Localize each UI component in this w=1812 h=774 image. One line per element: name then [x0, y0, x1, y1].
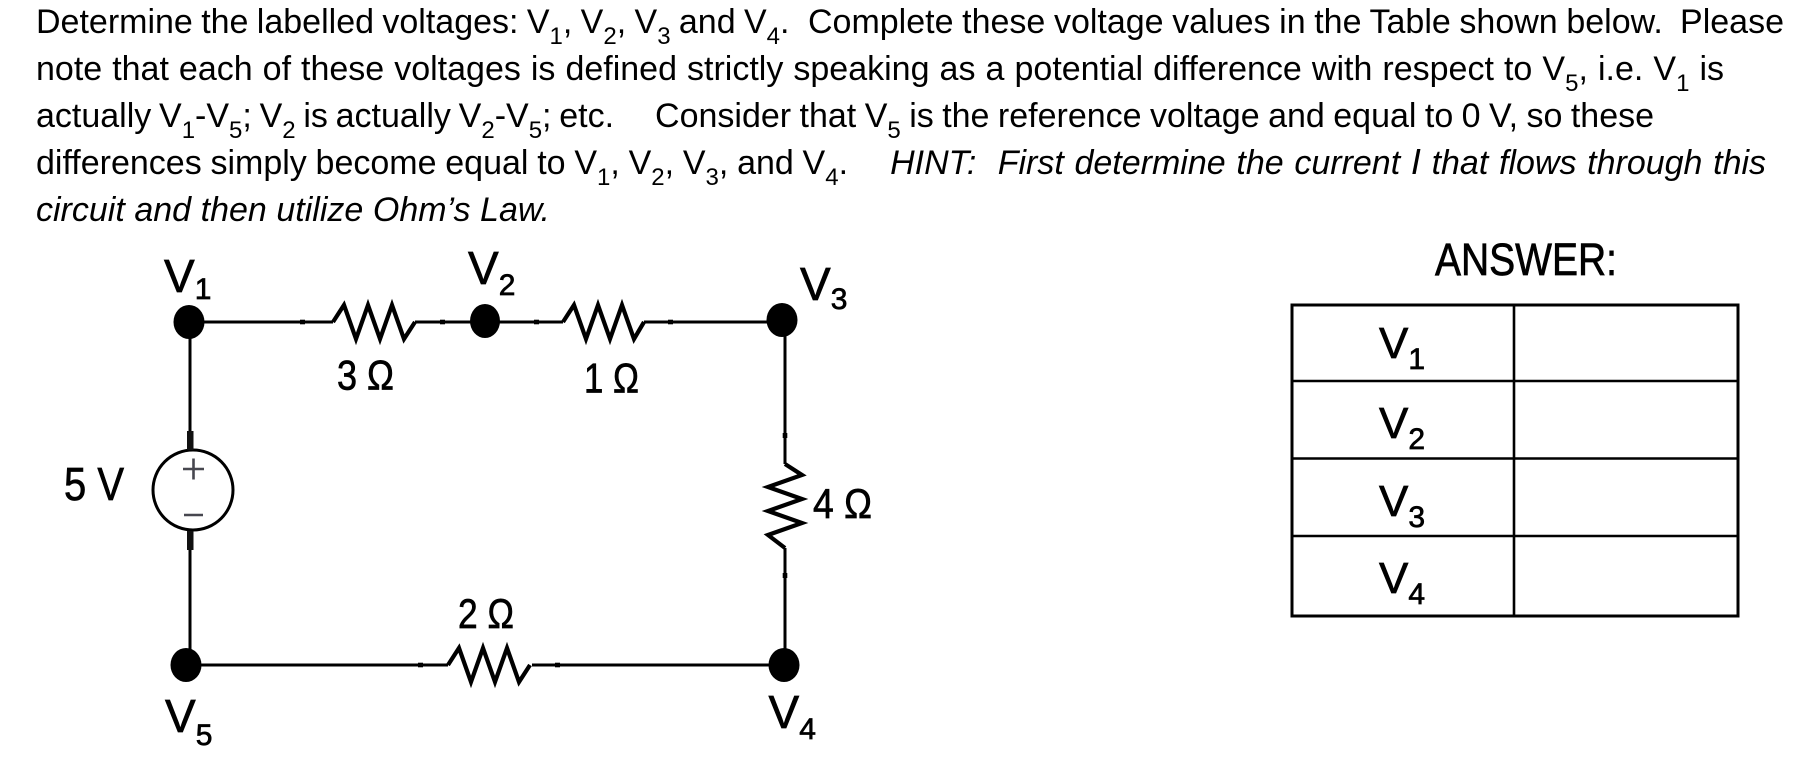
- svg-text:3 Ω: 3 Ω: [337, 352, 394, 399]
- svg-text:V4: V4: [1379, 554, 1425, 611]
- svg-text:V3: V3: [800, 258, 847, 316]
- svg-text:V5: V5: [165, 690, 212, 752]
- svg-text:V1: V1: [1379, 319, 1425, 376]
- svg-text:V4: V4: [769, 686, 816, 746]
- svg-text:1 Ω: 1 Ω: [584, 355, 639, 402]
- svg-text:ANSWER:: ANSWER:: [1435, 234, 1617, 285]
- svg-text:V2: V2: [468, 242, 515, 302]
- svg-text:V3: V3: [1379, 477, 1425, 534]
- svg-text:V2: V2: [1379, 399, 1425, 456]
- svg-text:V1: V1: [164, 250, 211, 306]
- svg-text:2 Ω: 2 Ω: [458, 590, 514, 637]
- svg-text:5 V: 5 V: [64, 458, 124, 510]
- svg-text:4 Ω: 4 Ω: [813, 480, 872, 527]
